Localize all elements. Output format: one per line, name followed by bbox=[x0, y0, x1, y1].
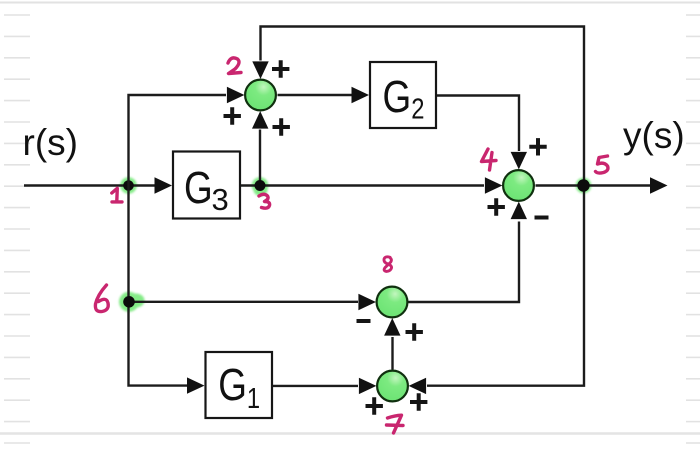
arrow into sum8 bottom bbox=[384, 318, 400, 336]
arrow into G2 bbox=[352, 87, 370, 103]
node 5 bbox=[577, 179, 589, 191]
label 2 bbox=[228, 58, 241, 74]
arrow into sum2 left bbox=[227, 87, 245, 103]
node 6 bbox=[123, 296, 135, 308]
block G2 bbox=[370, 62, 436, 128]
summing junction 8 bbox=[377, 287, 408, 318]
block G1 bbox=[206, 352, 273, 418]
arrow into sum4 top bbox=[511, 152, 527, 170]
sum2 plus left bbox=[224, 107, 241, 124]
G2 output wire down to sum4 top bbox=[436, 96, 519, 152]
summing junction 4 bbox=[503, 170, 534, 201]
sum2 plus top-right bbox=[272, 60, 289, 77]
node 6 highlight glow bbox=[119, 292, 139, 312]
sum8 output wire up to sum4 bottom bbox=[408, 222, 519, 303]
wire input r(s) to G3 bbox=[24, 184, 158, 186]
label 7 bbox=[387, 415, 404, 433]
sum4 plus top-right bbox=[529, 138, 546, 155]
node 6 wire to sum8 bbox=[129, 301, 358, 303]
label 8 bbox=[384, 257, 392, 272]
sum8 plus bottom-right bbox=[406, 323, 423, 340]
arrow into sum2 bottom bbox=[252, 111, 268, 129]
arrow into sum8 left bbox=[358, 294, 376, 310]
top feedback wire bbox=[261, 27, 585, 386]
sum2 output wire to G2 bbox=[278, 94, 354, 96]
arrow into sum4 bottom bbox=[511, 202, 527, 220]
G1 output wire to sum7 bbox=[272, 385, 358, 387]
label 4 bbox=[482, 149, 497, 170]
label 3 bbox=[259, 194, 270, 208]
svg-text:y(s): y(s) bbox=[623, 115, 685, 156]
node 5 highlight glow bbox=[576, 178, 592, 194]
node 1 highlight glow bbox=[119, 177, 591, 312]
sum2 plus bottom-right bbox=[273, 118, 290, 135]
sum7 plus right bbox=[410, 393, 427, 410]
svg-text:3: 3 bbox=[212, 182, 229, 217]
label 6 bbox=[95, 285, 108, 312]
wire node1 up to sum2 level bbox=[129, 95, 227, 186]
summing junction 7 bbox=[377, 371, 408, 402]
arrow into G3 bbox=[155, 177, 173, 193]
label 1 bbox=[112, 188, 122, 202]
plus/minus signs bbox=[224, 60, 549, 414]
arrow into sum2 top bbox=[252, 61, 268, 79]
sum7 plus left bbox=[366, 397, 383, 414]
sum4 minus bottom-right bbox=[535, 216, 549, 220]
main wire G3 out to sum4 bbox=[240, 184, 484, 186]
wire node3 up to sum2 bottom bbox=[259, 130, 261, 186]
handwritten pink labels bbox=[95, 58, 608, 433]
sum8 minus left bbox=[357, 319, 371, 323]
svg-text:G: G bbox=[184, 163, 213, 213]
summing junction 2 bbox=[245, 80, 276, 111]
block G3 bbox=[173, 152, 240, 219]
output arrow bbox=[650, 177, 668, 193]
node 3 highlight glow bbox=[252, 177, 269, 194]
arrow into sum7 right bbox=[409, 378, 427, 394]
sum4 output wire to y(s) bbox=[536, 184, 651, 186]
arrow into sum7 left bbox=[359, 378, 377, 394]
arrow into sum4 left bbox=[485, 177, 503, 193]
node 1 bbox=[123, 180, 134, 191]
svg-text:r(s): r(s) bbox=[23, 122, 78, 163]
wire node1 down to G1 level bbox=[129, 186, 188, 386]
node 3 bbox=[255, 180, 266, 191]
label 5 bbox=[596, 156, 609, 173]
arrow into G1 bbox=[187, 377, 205, 393]
sum7 to sum8 wire bbox=[391, 337, 393, 370]
sum4 plus left bbox=[488, 198, 505, 215]
